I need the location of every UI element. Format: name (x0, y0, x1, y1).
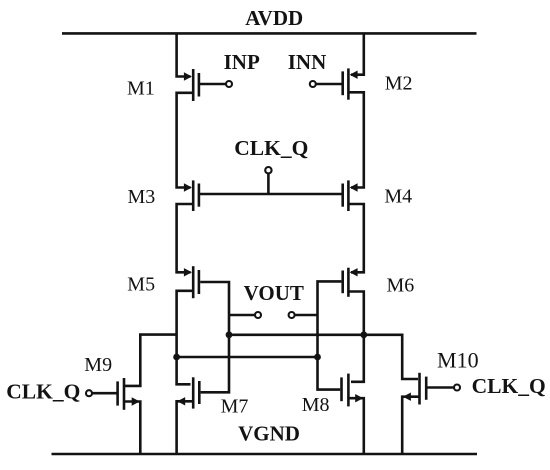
svg-text:M6: M6 (387, 274, 415, 296)
transistor M7 gate bar (198, 381, 201, 404)
svg-text:AVDD: AVDD (245, 6, 303, 30)
VGND rail (52, 453, 478, 456)
svg-text:CLK_Q: CLK_Q (234, 136, 308, 160)
transistor M9 gate bar (116, 381, 119, 405)
arrow M3 drain (184, 183, 192, 191)
svg-text:INN: INN (288, 50, 327, 74)
CLK_Q right terminal circle (454, 385, 460, 391)
transistor M10 gate bar (425, 377, 428, 400)
wire M10 gate to CLK_Q right terminal (426, 386, 454, 389)
wire M2 gate to INN (316, 83, 343, 86)
wire M3 source to M5 drain (177, 204, 195, 272)
arrow M6 drain (350, 268, 358, 276)
wire M9 source to VGND rail (123, 402, 140, 455)
svg-text:CLK_Q: CLK_Q (472, 374, 546, 398)
wire cross-couple line B (177, 356, 318, 359)
wire M7 source to VGND rail (177, 401, 195, 454)
wire M9 gate to CLK_Q left terminal (92, 392, 118, 395)
wire M6 source down right branch to M8 drain (347, 292, 363, 382)
transistor M10 channel (418, 373, 421, 405)
wire AVDD to M1 drain (177, 33, 191, 76)
wire M2 source to M4 drain (347, 92, 363, 187)
transistor M2 channel (347, 68, 350, 99)
svg-text:M1: M1 (127, 78, 155, 100)
node A junction dot left (226, 331, 233, 338)
node B junction dot right (314, 354, 321, 361)
wire CLK_Q terminal stem (267, 173, 270, 194)
wire VOUT minus tap (229, 314, 255, 317)
wire M4 source to M6 drain (347, 204, 363, 272)
svg-text:M8: M8 (302, 394, 330, 416)
transistor M3 channel (192, 180, 195, 211)
node A junction dot on right branch (360, 331, 367, 338)
svg-text:M10: M10 (437, 348, 479, 373)
svg-text:M3: M3 (128, 186, 156, 208)
arrow M5 drain (184, 268, 192, 276)
wire M5 source down left branch to M7 drain (177, 291, 195, 385)
wire M6 gate falling to node Q (318, 281, 342, 389)
arrow M8 source (355, 394, 363, 402)
transistor M3 gate bar (198, 184, 201, 207)
wire CLK_Q gate line M3 to M4 (199, 193, 343, 196)
wire cross-couple line A to M10 drain (229, 335, 418, 379)
transistor M6 channel (347, 268, 350, 297)
transistor M1 channel (192, 69, 195, 101)
transistor M4 gate bar (341, 184, 344, 207)
INN terminal circle (310, 81, 316, 87)
transistor M1 gate bar (198, 73, 201, 97)
transistor M4 channel (347, 180, 350, 211)
arrow M7 source (177, 397, 185, 405)
arrow M9 source (132, 397, 140, 405)
transistor M8 channel (347, 374, 350, 407)
wire M8 source to VGND rail (347, 398, 363, 454)
arrow M10 source (403, 393, 411, 401)
arrow M2 drain (350, 71, 358, 79)
wire AVDD to M2 drain (351, 33, 364, 74)
svg-text:VOUT: VOUT (244, 281, 304, 305)
transistor M8 gate bar (340, 377, 343, 401)
transistor M6 gate bar (341, 271, 344, 294)
svg-text:M2: M2 (385, 73, 413, 95)
transistor M7 channel (192, 377, 195, 408)
INP terminal circle (226, 81, 232, 87)
VOUT minus terminal circle (255, 312, 261, 318)
svg-text:M7: M7 (221, 396, 249, 418)
svg-text:M5: M5 (127, 274, 155, 296)
VOUT plus terminal circle (289, 312, 295, 318)
node B junction dot on left branch (173, 354, 180, 361)
svg-text:INP: INP (224, 50, 260, 74)
AVDD rail (62, 32, 477, 35)
transistor M9 channel (123, 378, 126, 410)
svg-text:M9: M9 (84, 354, 112, 376)
wire M7 gate rising to node QB (200, 282, 229, 392)
svg-text:VGND: VGND (238, 422, 300, 446)
wire M9 drain to left branch (125, 335, 177, 386)
CLK_Q left terminal circle (86, 390, 92, 396)
wire M1 source to M3 drain (177, 93, 195, 188)
arrow M1 drain (184, 72, 192, 80)
svg-text:M4: M4 (384, 186, 412, 208)
CLK_Q terminal circle top (265, 167, 271, 173)
transistor M5 channel (192, 266, 195, 298)
arrow M4 drain (350, 183, 358, 191)
transistor M2 gate bar (341, 71, 344, 95)
transistor M5 gate bar (198, 270, 201, 294)
wire M1 gate to INP (199, 83, 226, 86)
svg-text:CLK_Q: CLK_Q (6, 380, 80, 404)
wire VOUT plus tap (295, 314, 318, 317)
wire M10 source to VGND rail (402, 397, 420, 454)
